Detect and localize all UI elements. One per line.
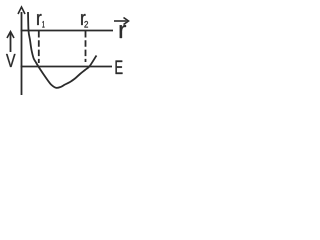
r2 label bbox=[81, 14, 85, 25]
vector arrow over r bbox=[114, 18, 129, 25]
V label bbox=[6, 54, 15, 67]
r1 subscript 1 bbox=[42, 21, 44, 28]
E label bbox=[116, 61, 123, 75]
V-axis direction arrow (small, far left) bbox=[7, 32, 14, 53]
dashed line at r1 bbox=[38, 31, 40, 63]
dashed line at r2 bbox=[85, 31, 87, 62]
E level line bbox=[21, 66, 113, 68]
r axis label (vector r) bbox=[120, 25, 126, 38]
background bbox=[0, 0, 143, 101]
horizontal r axis (top) bbox=[21, 30, 114, 32]
r2 subscript 2 bbox=[84, 21, 88, 28]
potential energy curve bbox=[28, 12, 97, 88]
r1 label bbox=[37, 14, 41, 25]
vertical axis (V axis) bbox=[18, 7, 25, 95]
